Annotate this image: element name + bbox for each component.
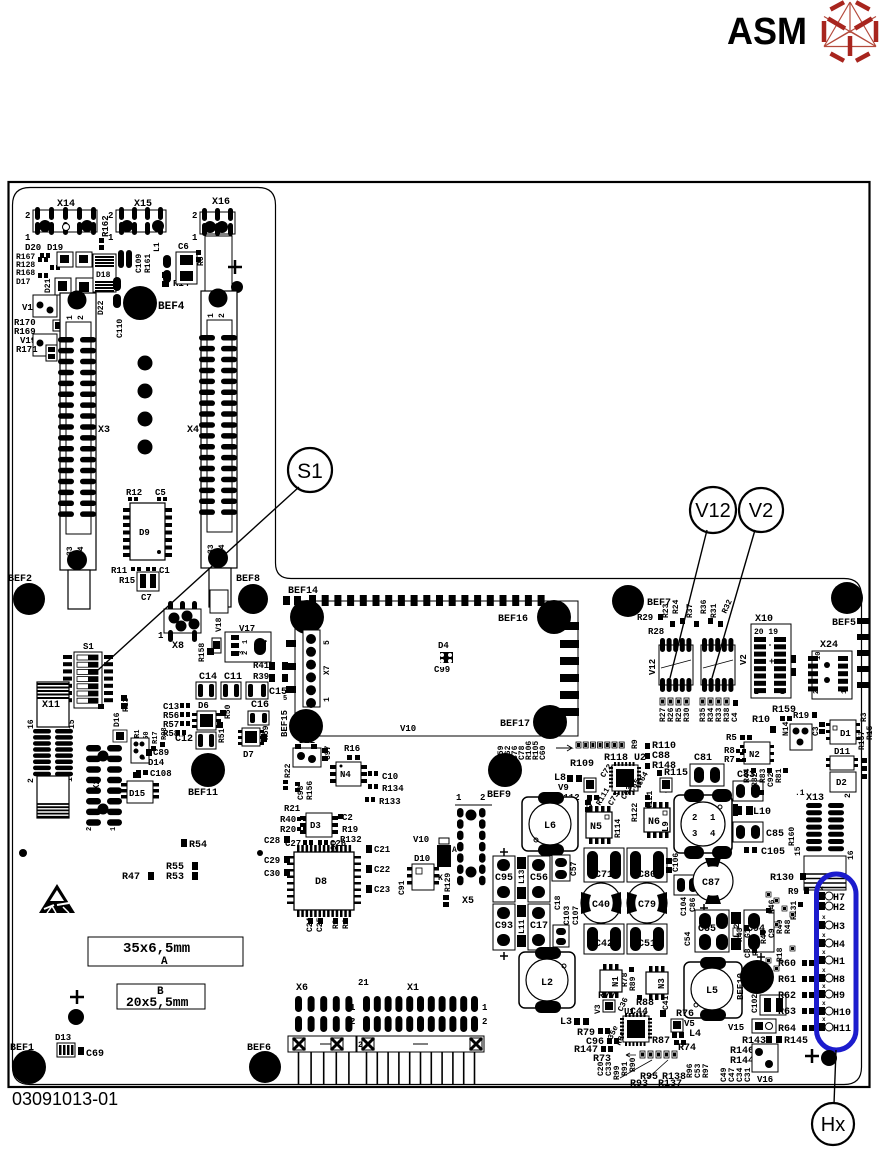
svg-text:C10: C10 (382, 772, 398, 782)
svg-text:C103: C103 (563, 906, 572, 925)
svg-text:X5: X5 (462, 896, 474, 907)
svg-text:R122: R122 (631, 803, 640, 822)
svg-text:V2: V2 (749, 500, 773, 522)
connector X2 (86, 745, 122, 831)
svg-text:R28: R28 (648, 627, 664, 637)
svg-text:2: 2 (844, 793, 853, 798)
transistor V18 (210, 590, 228, 613)
svg-text:20 19: 20 19 (754, 628, 778, 637)
svg-text:C108: C108 (150, 769, 172, 779)
connector X16 (192, 197, 235, 243)
svg-text:BEF14: BEF14 (288, 586, 318, 597)
svg-text:R29: R29 (637, 613, 653, 623)
svg-text:R114: R114 (614, 819, 623, 838)
svg-text:C93: C93 (495, 921, 513, 932)
capacitor C79 (627, 883, 667, 923)
svg-text:D22: D22 (97, 300, 106, 315)
svg-text:N1: N1 (611, 976, 621, 987)
svg-text:X13: X13 (806, 793, 824, 804)
callout V12 (690, 487, 736, 533)
svg-text:Hx: Hx (821, 1114, 845, 1136)
svg-text:x: x (822, 932, 826, 939)
callout Hx (812, 1103, 854, 1145)
svg-text:1: 1 (323, 697, 332, 702)
svg-text:V10: V10 (400, 724, 416, 734)
svg-text:1: 1 (456, 793, 462, 803)
polarity plus mark bottom-left (70, 996, 84, 999)
svg-text:2: 2 (754, 688, 759, 697)
svg-text:1: 1 (242, 640, 250, 644)
svg-text:1: 1 (710, 813, 716, 823)
svg-text:C7: C7 (141, 593, 152, 603)
svg-text:L3: L3 (560, 1017, 572, 1028)
svg-text:R90: R90 (629, 1057, 638, 1072)
svg-text:R12: R12 (126, 488, 142, 498)
svg-text:R162: R162 (101, 215, 111, 237)
ESD warning triangle (39, 884, 75, 913)
svg-text:C69: C69 (86, 1049, 104, 1060)
svg-text:1: 1 (158, 631, 164, 641)
svg-text:3: 3 (692, 829, 697, 839)
svg-text:L2: L2 (541, 978, 553, 989)
svg-text:D15: D15 (129, 789, 145, 799)
svg-text:L5: L5 (706, 986, 718, 997)
svg-text:R115: R115 (664, 768, 688, 779)
fiducial BEF4 (123, 286, 157, 320)
svg-text:C40: C40 (592, 900, 610, 911)
svg-text:C57: C57 (570, 861, 579, 876)
svg-text:N4: N4 (340, 770, 351, 780)
svg-text:H2: H2 (833, 903, 845, 914)
svg-text:1: 1 (25, 233, 31, 243)
LED H9 (818, 990, 825, 998)
svg-text:U2: U2 (634, 753, 646, 764)
capacitor C21 (366, 845, 372, 853)
callout line S1 (98, 487, 299, 670)
svg-text:R41: R41 (253, 661, 270, 671)
svg-text:L1: L1 (153, 242, 162, 252)
svg-text:C54: C54 (684, 931, 693, 946)
transistor V10 body (437, 845, 451, 867)
svg-text:C1: C1 (159, 566, 170, 576)
svg-text:X6: X6 (296, 983, 308, 994)
capacitor C87 (693, 858, 733, 912)
svg-text:C105: C105 (761, 847, 785, 858)
svg-text:R77: R77 (598, 991, 616, 1002)
capacitor C80 (627, 848, 667, 882)
svg-text:R19: R19 (793, 711, 809, 721)
svg-text:R22: R22 (284, 763, 293, 778)
svg-text:N3: N3 (657, 978, 667, 989)
svg-text:R61: R61 (778, 975, 796, 986)
svg-text:03091013-01: 03091013-01 (12, 1089, 118, 1109)
svg-text:L11: L11 (518, 919, 527, 934)
svg-text:C29: C29 (264, 856, 280, 866)
svg-text:C41: C41 (662, 995, 671, 1010)
svg-text:2: 2 (350, 1017, 355, 1027)
svg-text:C30: C30 (264, 869, 280, 879)
svg-text:21: 21 (358, 978, 369, 988)
capacitor C55 (695, 910, 729, 952)
svg-text:V3: V3 (594, 1004, 603, 1014)
resistor row below V12 (659, 698, 692, 722)
svg-text:1: 1 (841, 690, 849, 694)
svg-text:X15: X15 (134, 199, 152, 210)
svg-text:C102: C102 (751, 994, 760, 1013)
dimension box B 20x5.5mm (117, 984, 205, 1009)
svg-text:R158: R158 (198, 643, 207, 662)
svg-text:R40: R40 (280, 815, 296, 825)
svg-text:D6: D6 (198, 701, 209, 711)
svg-text:C85: C85 (766, 829, 784, 840)
svg-text:R15: R15 (866, 725, 875, 740)
svg-text:R23: R23 (662, 603, 671, 618)
svg-text:H3: H3 (833, 922, 845, 933)
inductor L2 (519, 947, 575, 1013)
svg-text:R63: R63 (778, 1007, 796, 1018)
svg-text:5: 5 (323, 640, 332, 645)
svg-text:X4: X4 (187, 425, 199, 436)
svg-text:R39: R39 (253, 672, 269, 682)
callout S1 (288, 448, 332, 492)
svg-text:BEF9: BEF9 (487, 790, 511, 801)
capacitor C56 (528, 856, 550, 902)
svg-text:15: 15 (68, 719, 77, 729)
svg-text:R53: R53 (166, 872, 184, 883)
fiducial BEF15 circle (289, 709, 323, 743)
left board dot (19, 849, 27, 857)
svg-text:R11: R11 (111, 566, 128, 576)
svg-text:R145: R145 (784, 1036, 808, 1047)
svg-text:C9: C9 (768, 928, 777, 938)
connector X13 (794, 789, 856, 890)
small chip cluster b (76, 252, 92, 267)
resistor R134 (368, 784, 372, 789)
svg-text:1: 1 (66, 315, 75, 320)
fiducial BEF7 (612, 585, 644, 617)
svg-text:R97: R97 (702, 1063, 711, 1078)
svg-text:2: 2 (692, 813, 697, 823)
svg-text:C110: C110 (116, 319, 125, 338)
right cluster pads (861, 758, 867, 779)
fiducial BEF5 (831, 582, 863, 614)
svg-text:2: 2 (813, 690, 821, 694)
LED H4 (818, 939, 825, 947)
svg-text:D20: D20 (25, 243, 41, 253)
svg-text:R54: R54 (189, 840, 207, 851)
svg-text:BEF4: BEF4 (158, 301, 185, 313)
DIP switch S1 (63, 642, 113, 709)
svg-text:D9: D9 (139, 528, 150, 538)
IC D15 (121, 781, 159, 803)
svg-text:C60: C60 (539, 745, 548, 760)
IC N3 (646, 966, 668, 1000)
IC V2 (701, 638, 749, 692)
svg-text:R5: R5 (726, 733, 737, 743)
svg-text:G1: G1 (744, 928, 753, 938)
inductor L5 (684, 957, 742, 1021)
svg-text:H10: H10 (833, 1008, 851, 1019)
capacitor C18 pads (553, 925, 569, 947)
svg-text:6: 6 (140, 756, 147, 760)
callout line Hx (834, 1050, 836, 1104)
svg-text:D2: D2 (836, 778, 847, 788)
connector X10 (751, 614, 796, 698)
IC N6 (644, 802, 670, 838)
svg-text:V12: V12 (648, 659, 658, 675)
svg-text:ASM: ASM (727, 11, 807, 53)
callout line V12 (670, 530, 707, 678)
RF module outline (295, 601, 578, 736)
IC N5 (586, 806, 612, 844)
tooling holes (138, 356, 153, 371)
svg-text:H9: H9 (833, 991, 845, 1002)
svg-text:4: 4 (262, 640, 270, 644)
LED H2 (818, 902, 825, 910)
svg-text:A: A (161, 956, 168, 968)
IC N4 (330, 762, 367, 786)
svg-text:L13: L13 (518, 869, 527, 884)
svg-text:R129: R129 (444, 873, 453, 892)
connector X1 mount pads (362, 1038, 374, 1050)
svg-text:X11: X11 (42, 700, 60, 711)
LED H3 (818, 921, 825, 929)
svg-text:x: x (822, 983, 826, 990)
svg-text:R171: R171 (16, 345, 38, 355)
svg-text:3: 3 (238, 651, 246, 655)
svg-text:+: + (769, 657, 774, 667)
svg-text:C71: C71 (595, 870, 613, 881)
blue highlight stadium around H LEDs (817, 874, 857, 1050)
connector X14 (25, 199, 97, 243)
svg-text:R9: R9 (631, 739, 640, 749)
arrow to resistor row (556, 745, 572, 751)
svg-text:R1: R1 (134, 730, 142, 738)
fiducial dot bottom right (821, 1050, 837, 1066)
svg-text:H4: H4 (833, 940, 845, 951)
svg-text:C28: C28 (264, 836, 280, 846)
svg-text:16: 16 (847, 850, 856, 860)
svg-text:R109: R109 (570, 759, 594, 770)
IC D2 (830, 772, 856, 792)
svg-text:C95: C95 (495, 873, 513, 884)
svg-text:V2: V2 (739, 654, 749, 665)
capacitor C51 (627, 924, 667, 954)
svg-text:D21: D21 (44, 278, 53, 293)
connector X8 (158, 601, 201, 652)
LED H7 (818, 892, 825, 900)
svg-text:R118: R118 (604, 753, 628, 764)
svg-text:BEF5: BEF5 (832, 618, 856, 629)
dot near C29 (257, 850, 263, 856)
svg-text:D17: D17 (16, 278, 31, 287)
svg-text:1: 1 (780, 688, 785, 697)
svg-text:R62: R62 (778, 991, 796, 1002)
small chip cluster d (76, 278, 93, 296)
svg-text:L4: L4 (689, 1029, 701, 1040)
svg-text:S1: S1 (297, 460, 323, 483)
resistor R54 (181, 839, 187, 847)
drawing frame border (9, 182, 870, 1087)
svg-text:R161: R161 (144, 254, 153, 273)
svg-text:R160: R160 (788, 827, 797, 846)
svg-text:X24: X24 (820, 640, 838, 651)
module top pad row (283, 595, 545, 606)
svg-text:x: x (822, 914, 826, 921)
capacitor C40 (581, 883, 621, 923)
svg-text:X16: X16 (212, 197, 230, 208)
svg-text:C81: C81 (694, 753, 712, 764)
svg-text:C2: C2 (342, 813, 353, 823)
capacitor C109 (118, 250, 124, 268)
svg-text:C79: C79 (638, 900, 656, 911)
IC D3 (300, 813, 338, 837)
svg-text:BEF8: BEF8 (236, 574, 260, 585)
svg-text:C16: C16 (251, 700, 269, 711)
svg-text:X10: X10 (755, 614, 773, 625)
svg-text:C107: C107 (572, 906, 581, 925)
svg-text:35x6,5mm: 35x6,5mm (123, 941, 190, 957)
LED H11 (818, 1023, 825, 1031)
svg-text:H1: H1 (833, 957, 845, 968)
resistor row below V2 (699, 698, 732, 722)
capacitor C22 (366, 865, 372, 873)
IC N2 (744, 742, 770, 764)
svg-text:R9: R9 (788, 887, 799, 897)
svg-text:1: 1 (207, 313, 216, 318)
svg-text:C4: C4 (731, 712, 740, 722)
svg-text:R89: R89 (629, 976, 638, 991)
IC U1 (620, 1007, 652, 1046)
svg-text:C89: C89 (153, 748, 169, 758)
small pads right cluster (766, 892, 795, 971)
svg-text:V15: V15 (728, 1023, 744, 1033)
svg-text:R93: R93 (630, 1079, 648, 1090)
svg-text:X2: X2 (92, 779, 102, 790)
resistor row pads (576, 742, 624, 748)
IC V12 (648, 638, 693, 692)
svg-text:5: 5 (283, 695, 287, 703)
svg-text:BEF11: BEF11 (188, 788, 218, 799)
svg-text:C51: C51 (638, 939, 656, 950)
svg-text:C12: C12 (175, 734, 193, 745)
svg-text:L10: L10 (753, 807, 771, 818)
ASM hexagon logo (824, 2, 876, 47)
svg-text:X7: X7 (323, 665, 332, 675)
capacitor C57 (552, 855, 570, 881)
connector X15 (108, 199, 166, 243)
capacitor C17 (528, 904, 550, 960)
svg-text:H11: H11 (833, 1024, 851, 1035)
svg-text:R36: R36 (700, 599, 709, 614)
svg-text:R15: R15 (119, 576, 135, 586)
svg-text:C80: C80 (638, 870, 656, 881)
capacitor C69 (78, 1047, 84, 1055)
svg-text:C17: C17 (530, 921, 548, 932)
svg-text:L9: L9 (661, 821, 671, 832)
svg-text:R133: R133 (379, 797, 401, 807)
svg-text:R47: R47 (122, 872, 140, 883)
svg-text:V10: V10 (413, 835, 429, 845)
svg-text:R19: R19 (342, 825, 358, 835)
fiducial BEF9 (488, 753, 522, 787)
IC D11 pins (826, 758, 830, 761)
svg-text:C23: C23 (374, 885, 390, 895)
IC U2 (609, 762, 641, 795)
polarity plus mark (228, 266, 242, 269)
IC N1 (600, 964, 622, 998)
svg-text:x: x (822, 1000, 826, 1007)
right edge connector pads (857, 618, 869, 688)
svg-text:L6: L6 (544, 821, 556, 832)
resistor R14 (162, 272, 169, 278)
IC D8 (287, 845, 361, 917)
svg-text:1: 1 (482, 1003, 488, 1013)
svg-text:D3: D3 (310, 821, 321, 831)
svg-text:x: x (822, 967, 826, 974)
svg-text:C98: C98 (297, 785, 306, 800)
svg-text:C104: C104 (680, 897, 689, 916)
svg-text:C18: C18 (554, 895, 563, 910)
connector X6 mount pads (293, 1038, 305, 1050)
svg-text:D4: D4 (438, 641, 449, 651)
capacitor C104 pads (674, 875, 698, 895)
svg-text:R137: R137 (658, 1079, 682, 1090)
inductor L9 (661, 789, 732, 859)
svg-text:D16: D16 (113, 712, 122, 727)
svg-text:20x5,5mm: 20x5,5mm (126, 995, 189, 1010)
svg-text:x: x (822, 1016, 826, 1023)
svg-text:R51: R51 (218, 728, 227, 743)
capacitor C105 (744, 847, 749, 853)
capacitor C94 (744, 910, 774, 961)
callout line V2 (712, 530, 755, 678)
svg-text:16: 16 (27, 719, 36, 729)
callout V2 (739, 488, 783, 532)
svg-text:X8: X8 (172, 641, 184, 652)
svg-text:R64: R64 (778, 1024, 796, 1035)
capacitor C23 (366, 885, 372, 893)
IC D7 (238, 728, 264, 760)
svg-text:C91: C91 (398, 880, 407, 895)
svg-text:V12: V12 (695, 500, 731, 522)
module left pad column (283, 640, 296, 703)
LED H1 (818, 956, 825, 964)
svg-text:X3: X3 (98, 425, 110, 436)
svg-text:C6: C6 (178, 242, 189, 252)
svg-text:V9: V9 (558, 783, 569, 793)
polarity plus bottom right (805, 1055, 819, 1058)
connector X9 (131, 738, 149, 763)
fiducial dot bottom-left (68, 1009, 84, 1025)
connector X24 (808, 640, 852, 699)
svg-text:R7: R7 (724, 755, 735, 765)
IC D9 (123, 503, 172, 560)
svg-text:R87: R87 (652, 1036, 670, 1047)
svg-text:2: 2 (27, 778, 36, 783)
LED H10 (818, 1007, 825, 1015)
svg-text:C21: C21 (374, 845, 391, 855)
small chip above D15 (133, 772, 141, 778)
svg-text:R134: R134 (382, 784, 404, 794)
svg-text:R31: R31 (710, 603, 719, 618)
svg-text:C55: C55 (698, 924, 716, 935)
svg-text:C42: C42 (595, 939, 613, 950)
svg-text:R48: R48 (784, 919, 793, 934)
IC D1 (830, 720, 856, 744)
inductor L10 (735, 806, 742, 815)
connector X1 (357, 978, 488, 1085)
